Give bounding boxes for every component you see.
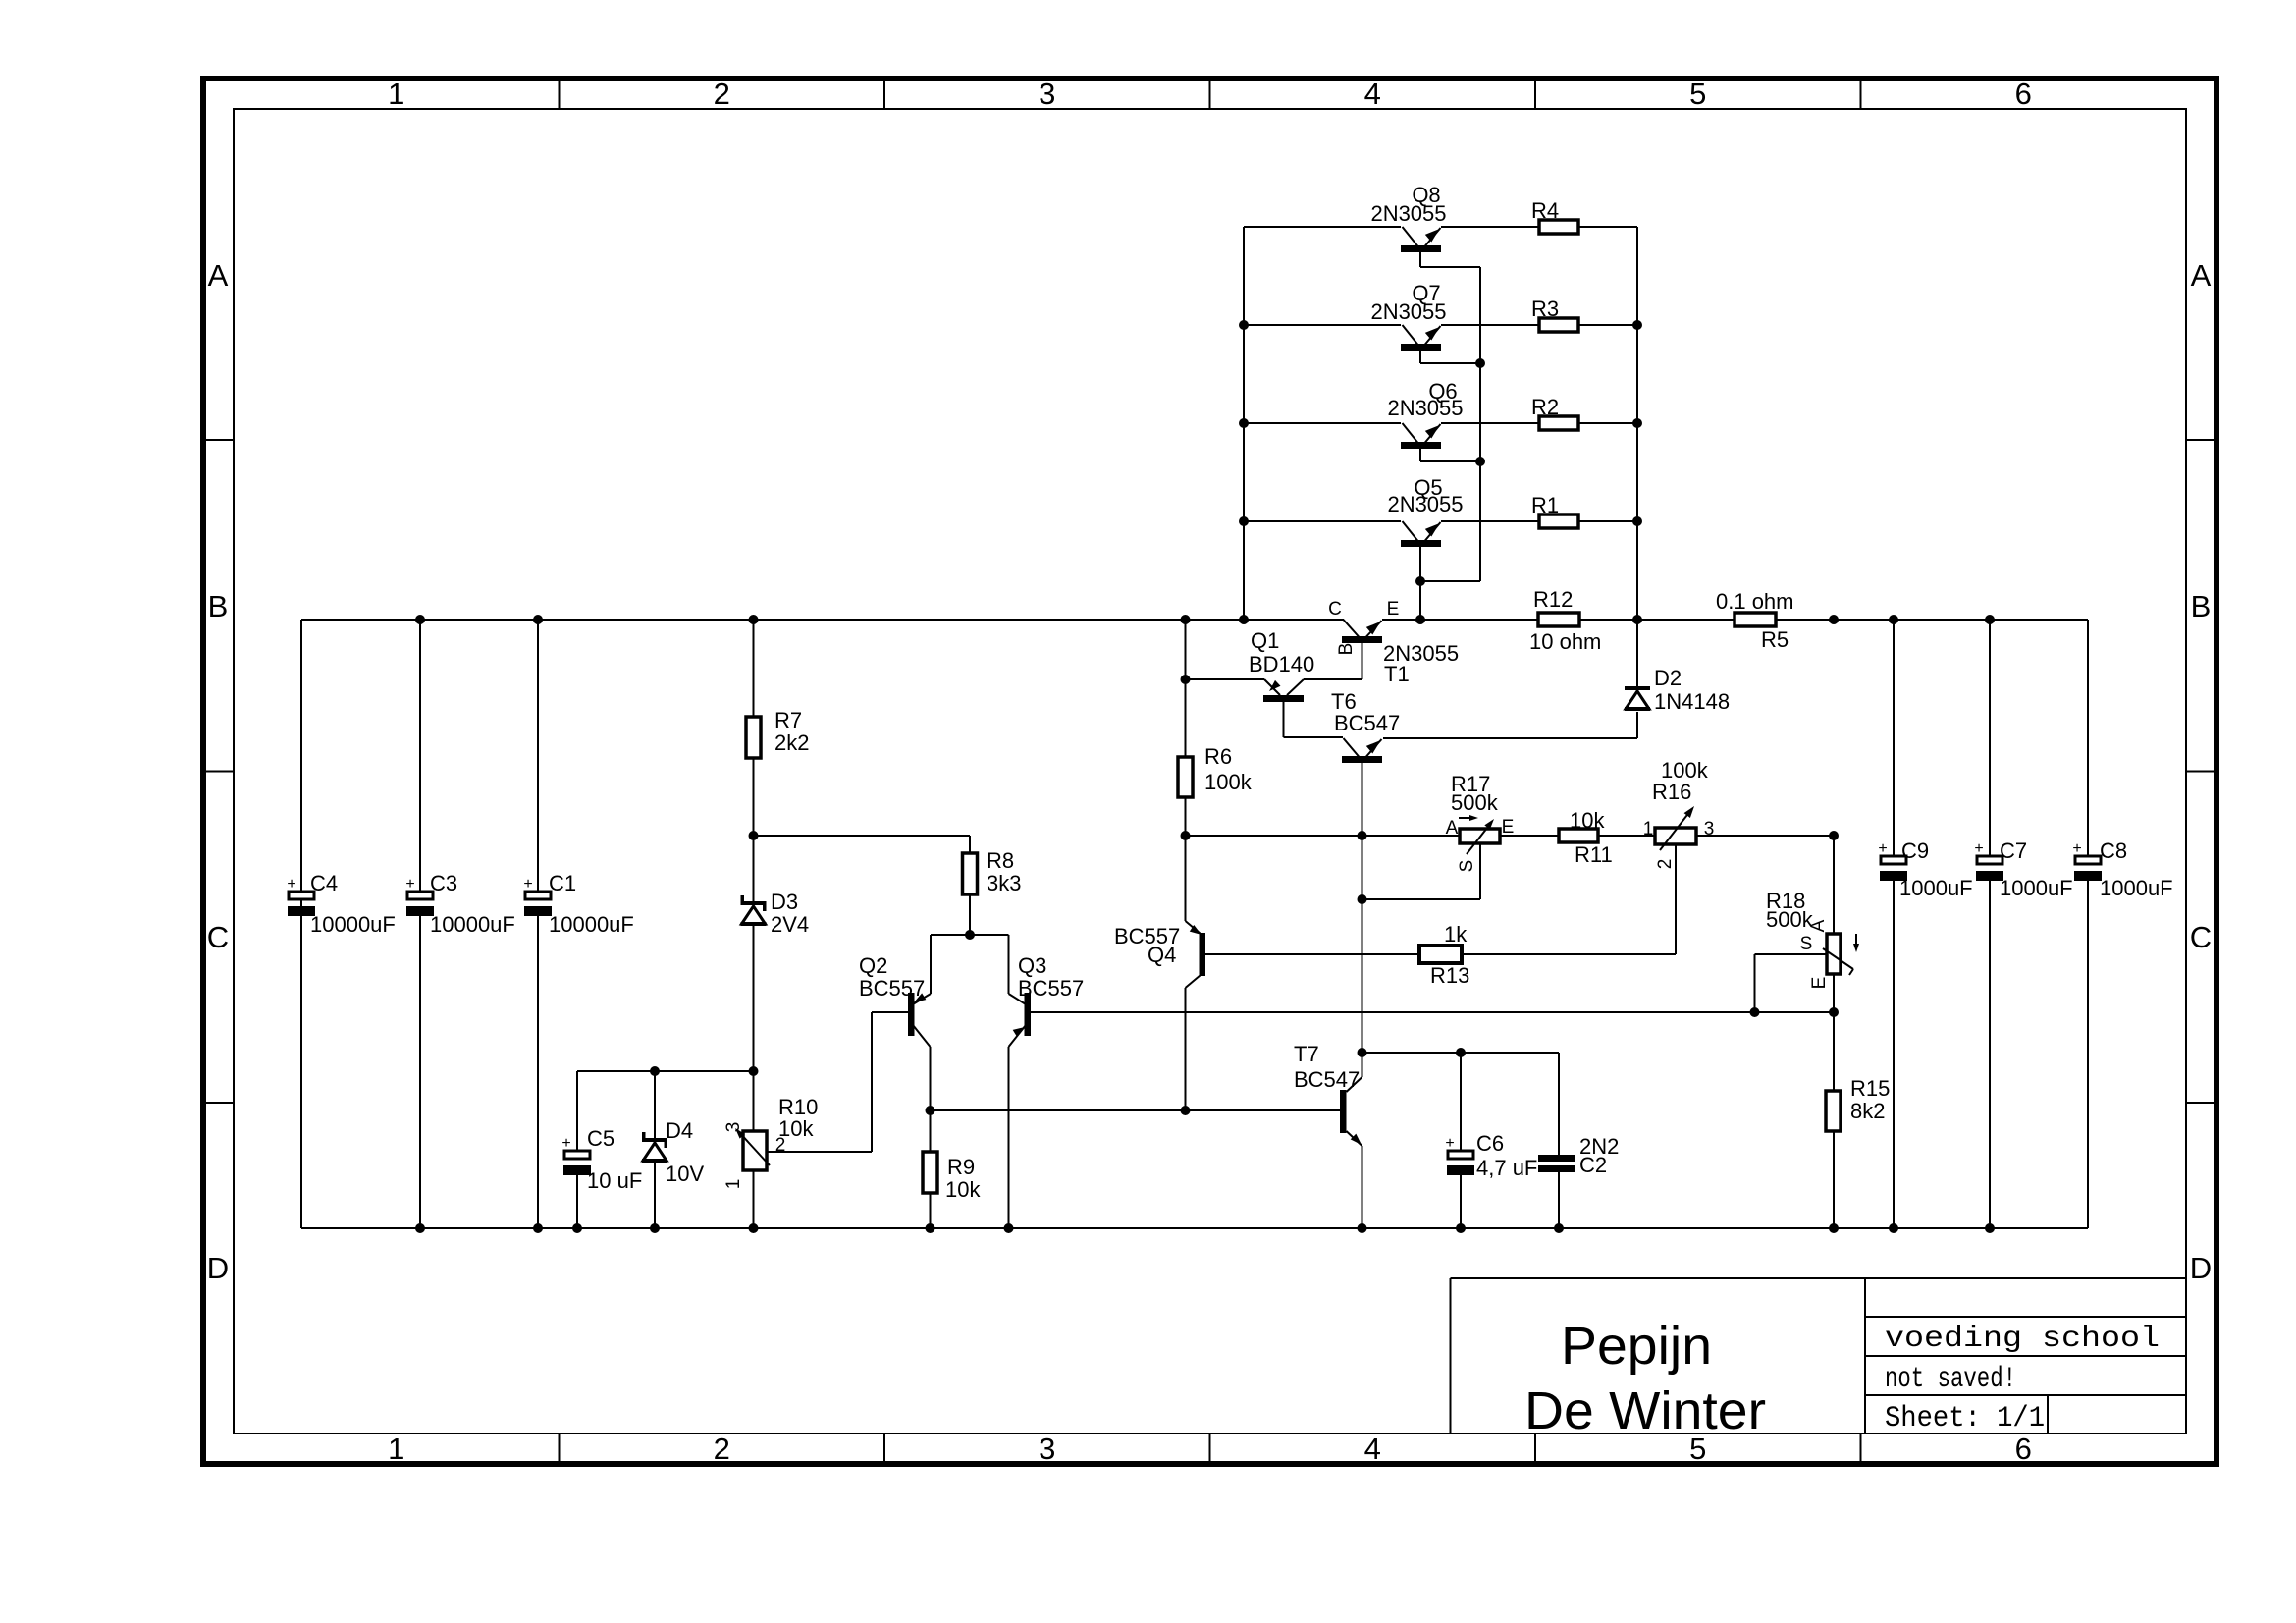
svg-text:10000uF: 10000uF <box>549 912 634 937</box>
label R16 <box>1652 758 1709 804</box>
svg-text:R11: R11 <box>1575 842 1613 867</box>
svg-text:voeding school: voeding school <box>1885 1323 2160 1356</box>
wire C3 branch <box>419 620 421 1228</box>
svg-text:3: 3 <box>1704 819 1715 839</box>
svg-text:2N3055: 2N3055 <box>1370 201 1446 226</box>
wire Q1 base to T6 collector <box>1284 702 1344 737</box>
label R17 pins <box>1446 817 1515 872</box>
svg-text:C: C <box>1328 599 1342 620</box>
svg-text:Q4: Q4 <box>1148 943 1176 967</box>
svg-text:4: 4 <box>1364 77 1381 111</box>
svg-text:3: 3 <box>1039 1432 1055 1466</box>
potentiometer R17 500k <box>1460 819 1500 854</box>
transistor Q8 2N3055 <box>1401 227 1441 252</box>
resistor R9 10k <box>923 1152 937 1193</box>
svg-text:D: D <box>207 1251 229 1285</box>
transistor Q4 BC557 (PNP) <box>1186 921 1206 988</box>
junction dots base bus <box>1415 358 1485 586</box>
label C4 <box>310 871 396 937</box>
border row letters right <box>2190 258 2212 1285</box>
resistor R3 <box>1539 318 1578 332</box>
border inner frame <box>234 109 2186 1434</box>
potentiometer R10 10k <box>735 1128 770 1170</box>
svg-text:1000uF: 1000uF <box>2000 876 2073 900</box>
svg-text:E: E <box>1502 817 1515 838</box>
junction dots collector bus <box>1239 320 1249 526</box>
svg-text:C6: C6 <box>1476 1131 1504 1156</box>
svg-text:10 ohm: 10 ohm <box>1529 629 1601 654</box>
label C8 <box>2100 839 2173 900</box>
wire emitter row y=531 <box>1441 520 1637 522</box>
label R17 <box>1451 772 1499 815</box>
wire Q1 emitter link <box>1186 678 1265 680</box>
wire error amp node row <box>1186 835 1461 837</box>
label Q8 <box>1370 183 1446 226</box>
label D3 <box>771 890 809 937</box>
svg-text:10k: 10k <box>945 1177 981 1202</box>
wire emitter resistor bus (right) <box>1636 227 1638 620</box>
wire base bus Q5-Q8 <box>1420 250 1480 620</box>
svg-text:BC547: BC547 <box>1294 1067 1360 1092</box>
svg-text:E: E <box>1809 977 1830 990</box>
svg-text:Q1: Q1 <box>1251 628 1279 653</box>
wire R6-Q4 vertical branch <box>1185 620 1187 1110</box>
wire Q2 collector / R9 branch <box>930 935 933 1228</box>
svg-text:BD140: BD140 <box>1249 652 1314 676</box>
capacitor C1 10000uF <box>523 876 552 916</box>
svg-text:1: 1 <box>388 1432 404 1466</box>
label C9 <box>1899 839 1973 900</box>
svg-text:6: 6 <box>2015 1432 2032 1466</box>
svg-text:100k: 100k <box>1204 770 1253 794</box>
svg-text:D2: D2 <box>1654 666 1682 690</box>
svg-text:Q2: Q2 <box>859 953 887 978</box>
svg-text:1000uF: 1000uF <box>2100 876 2173 900</box>
capacitor C9 1000uF <box>1878 840 1907 881</box>
wire R16 to R18 top <box>1696 835 1834 837</box>
wire T7 collector to C6/C2 <box>1362 1053 1560 1228</box>
svg-text:10k: 10k <box>1570 808 1605 833</box>
svg-text:2: 2 <box>714 1432 730 1466</box>
label R7 <box>774 708 809 755</box>
svg-text:B: B <box>2191 589 2212 623</box>
label R10 <box>778 1095 818 1141</box>
label R12 <box>1529 587 1601 654</box>
svg-text:R13: R13 <box>1430 963 1469 988</box>
capacitor C7 1000uF <box>1974 840 2003 881</box>
transistor Q2 BC557 (PNP) <box>908 993 931 1047</box>
label Q1 <box>1249 628 1314 676</box>
svg-text:2N3055: 2N3055 <box>1370 299 1446 324</box>
resistor R8 3k3 <box>963 853 978 894</box>
svg-text:C4: C4 <box>310 871 338 895</box>
svg-text:2N3055: 2N3055 <box>1387 396 1463 420</box>
transistor Q6 2N3055 <box>1401 423 1441 449</box>
resistor R7 2k2 <box>746 717 761 758</box>
svg-text:+: + <box>2072 840 2081 857</box>
label R5 <box>1716 589 1794 652</box>
svg-text:3: 3 <box>1039 77 1055 111</box>
wire Q2/Q3 emitter rail <box>931 934 1009 936</box>
wire T7 emitter to rail <box>1362 1146 1363 1228</box>
svg-text:+: + <box>523 876 532 893</box>
label R18 <box>1766 889 1814 932</box>
wire collector row y=531 <box>1244 520 1401 522</box>
wire R18 branch vertical <box>1833 836 1835 1228</box>
svg-text:D3: D3 <box>771 890 798 914</box>
label R8 <box>987 848 1021 895</box>
wire C1 branch <box>537 620 539 1228</box>
transistor T1 2N3055 <box>1342 620 1382 643</box>
label Q3 <box>1018 953 1084 1001</box>
svg-text:R5: R5 <box>1761 627 1789 652</box>
resistor R6 100k <box>1178 757 1193 797</box>
svg-text:+: + <box>287 876 295 893</box>
label C5 <box>587 1126 642 1193</box>
svg-text:Sheet: 1/1: Sheet: 1/1 <box>1885 1402 2045 1435</box>
svg-text:500k: 500k <box>1451 790 1499 815</box>
wire C9 branch <box>1893 620 1895 1228</box>
svg-text:C7: C7 <box>2000 839 2027 863</box>
junction dots emitter bus <box>1632 320 1642 526</box>
wire R17 wiper S branch <box>1362 844 1481 899</box>
wire left loop vertical <box>300 620 302 1228</box>
label R6 <box>1204 744 1253 794</box>
wire collector row y=331 <box>1244 324 1401 326</box>
wire D4 branch <box>654 1071 656 1228</box>
transistor T7 BC547 (NPN) <box>1340 1077 1362 1146</box>
resistor R13 1k <box>1419 946 1462 963</box>
label R10 pins <box>723 1122 785 1190</box>
svg-text:C1: C1 <box>549 871 576 895</box>
label T6 <box>1331 689 1400 735</box>
svg-text:C8: C8 <box>2100 839 2127 863</box>
label C2 <box>1579 1134 1619 1177</box>
wire T6 emitter to D2 <box>1383 620 1637 738</box>
svg-text:R2: R2 <box>1531 395 1559 419</box>
wire bottom negative rail <box>301 1227 2088 1229</box>
wire emitter row y=331 <box>1441 324 1637 326</box>
svg-text:1: 1 <box>388 77 404 111</box>
svg-text:4,7 uF: 4,7 uF <box>1476 1156 1537 1180</box>
label Q6 <box>1387 379 1463 420</box>
label C1 <box>549 871 634 937</box>
svg-text:R9: R9 <box>947 1155 975 1179</box>
svg-text:C: C <box>2190 920 2212 954</box>
svg-text:not saved!: not saved! <box>1885 1363 2016 1396</box>
junction dots misc nodes <box>650 675 1839 1115</box>
wire Q3 collector branch <box>1008 935 1010 1228</box>
resistor R4 <box>1539 220 1578 234</box>
svg-text:C: C <box>207 920 229 954</box>
wire Q3 base to R18 (long) <box>1031 1011 1834 1013</box>
wire collector bus Q5-Q8 (left) <box>1243 227 1245 620</box>
label D2 <box>1654 666 1730 714</box>
svg-text:1N4148: 1N4148 <box>1654 689 1730 714</box>
svg-text:R7: R7 <box>774 708 802 732</box>
svg-text:5: 5 <box>1689 77 1706 111</box>
wire R18 wiper S branch <box>1755 954 1828 1012</box>
capacitor C3 10000uF <box>405 876 434 916</box>
wire Q4 base / R13 row <box>1205 844 1676 954</box>
svg-text:R12: R12 <box>1533 587 1573 612</box>
wire C5 top branch <box>577 1071 754 1228</box>
svg-text:+: + <box>405 876 414 893</box>
wire C7 branch <box>1989 620 1991 1228</box>
resistor R5 0.1 ohm <box>1735 613 1776 626</box>
label R16 pins <box>1643 819 1715 869</box>
transistor Q1 BD140 (PNP) <box>1263 679 1304 702</box>
svg-text:R8: R8 <box>987 848 1014 873</box>
label R9 <box>945 1155 981 1202</box>
transistor Q3 BC557 (PNP) <box>1009 993 1032 1047</box>
svg-text:S: S <box>1800 934 1813 954</box>
svg-text:10V: 10V <box>666 1162 704 1186</box>
svg-text:2V4: 2V4 <box>771 912 809 937</box>
label C7 <box>2000 839 2073 900</box>
capacitor C6 4,7 uF <box>1445 1135 1474 1175</box>
svg-text:BC557: BC557 <box>1018 976 1084 1001</box>
label D4 <box>666 1118 704 1186</box>
wire collector row y=231 <box>1244 226 1401 228</box>
resistor R1 <box>1539 514 1578 528</box>
wire Q2 collector to T7 base <box>931 1109 1341 1111</box>
svg-text:1000uF: 1000uF <box>1899 876 1973 900</box>
diode D4 zener 10V <box>642 1132 667 1163</box>
wire R17 to R11 <box>1500 835 1559 837</box>
wire R7-D3-R10 vertical branch <box>753 620 755 1228</box>
svg-text:1: 1 <box>1643 819 1654 839</box>
svg-text:2: 2 <box>714 77 730 111</box>
wire unregulated positive rail (top) <box>301 619 2088 621</box>
svg-text:0.1 ohm: 0.1 ohm <box>1716 589 1794 614</box>
svg-text:BC557: BC557 <box>859 976 925 1001</box>
svg-text:Pepijn: Pepijn <box>1561 1317 1712 1376</box>
label Q7 <box>1370 281 1446 324</box>
wire Q1 collector to T1 base <box>1304 643 1362 679</box>
svg-text:B: B <box>1336 643 1357 656</box>
svg-text:R15: R15 <box>1850 1076 1890 1101</box>
label C6 <box>1476 1131 1537 1180</box>
label R11 <box>1570 808 1613 867</box>
svg-text:Q3: Q3 <box>1018 953 1046 978</box>
title block frame <box>1451 1278 2187 1434</box>
diode D3 zener 2V4 <box>741 895 767 926</box>
svg-text:D: D <box>2190 1251 2212 1285</box>
svg-text:10000uF: 10000uF <box>430 912 515 937</box>
label R18 pins <box>1800 919 1830 989</box>
border column ticks <box>203 79 2216 1464</box>
svg-text:A: A <box>1808 919 1829 932</box>
wire R10 wiper to Q2 base <box>767 1012 908 1152</box>
svg-text:S: S <box>1457 860 1477 873</box>
svg-text:10 uF: 10 uF <box>587 1168 642 1193</box>
label Q5 <box>1387 475 1463 516</box>
wire C8 branch <box>2087 620 2089 1228</box>
svg-text:2k2: 2k2 <box>774 730 809 755</box>
svg-text:3k3: 3k3 <box>987 871 1021 895</box>
wire emitter row y=431 <box>1441 422 1637 424</box>
svg-text:T1: T1 <box>1384 662 1410 686</box>
label Q4 <box>1114 924 1180 967</box>
label C3 <box>430 871 515 937</box>
svg-text:2: 2 <box>775 1135 786 1156</box>
svg-text:10000uF: 10000uF <box>310 912 396 937</box>
potentiometer R18 500k <box>1823 934 1853 975</box>
label R15 <box>1850 1076 1890 1123</box>
svg-text:R3: R3 <box>1531 297 1559 321</box>
label T7 <box>1294 1042 1360 1092</box>
svg-text:C5: C5 <box>587 1126 614 1151</box>
svg-text:R4: R4 <box>1531 198 1559 223</box>
label T1 <box>1383 641 1459 686</box>
junction dots positive rail <box>415 615 1995 624</box>
svg-text:C9: C9 <box>1901 839 1929 863</box>
svg-text:A: A <box>1446 818 1459 839</box>
capacitor C8 1000uF <box>2072 840 2102 881</box>
svg-text:T7: T7 <box>1294 1042 1319 1066</box>
wire collector row y=431 <box>1244 422 1401 424</box>
svg-text:+: + <box>561 1135 570 1152</box>
svg-text:+: + <box>1974 840 1983 857</box>
svg-text:C3: C3 <box>430 871 457 895</box>
transistor T6 BC547 <box>1342 738 1382 763</box>
border column numbers bottom <box>388 1432 2032 1466</box>
svg-text:6: 6 <box>2015 77 2032 111</box>
svg-text:A: A <box>208 258 229 293</box>
svg-text:BC547: BC547 <box>1334 711 1400 735</box>
wire R11 to R16 <box>1598 835 1655 837</box>
svg-text:A: A <box>2191 258 2212 293</box>
junction dots negative rail <box>415 1223 1995 1233</box>
label T1 pins C E B <box>1328 599 1399 655</box>
resistor R2 <box>1539 416 1578 430</box>
resistor R11 10k <box>1559 829 1598 842</box>
svg-text:De Winter: De Winter <box>1524 1381 1766 1440</box>
capacitor C5 10 uF <box>561 1135 591 1175</box>
label Q2 <box>859 953 925 1001</box>
potentiometer R16 100k <box>1655 806 1696 850</box>
svg-text:2N3055: 2N3055 <box>1387 492 1463 516</box>
svg-text:C2: C2 <box>1579 1153 1607 1177</box>
wire node R7/D3 to R8 <box>754 836 971 935</box>
resistor R12 10 ohm <box>1538 613 1579 626</box>
wire emitter row y=231 <box>1441 226 1637 228</box>
border row letters left <box>207 258 229 1285</box>
arrow marker R17 <box>1459 815 1478 821</box>
diode D2 1N4148 <box>1625 686 1650 711</box>
svg-text:1: 1 <box>723 1179 744 1190</box>
capacitor C4 10000uF <box>287 876 315 916</box>
svg-text:R1: R1 <box>1531 493 1559 517</box>
svg-text:D4: D4 <box>666 1118 693 1143</box>
transistor Q5 2N3055 <box>1401 521 1441 547</box>
svg-text:B: B <box>208 589 229 623</box>
svg-text:+: + <box>1878 840 1887 857</box>
svg-text:R16: R16 <box>1652 780 1691 804</box>
capacitor C2 2N2 <box>1538 1155 1575 1172</box>
svg-text:2: 2 <box>1655 859 1676 870</box>
title block author name <box>1524 1317 1766 1440</box>
label R13 <box>1430 922 1469 988</box>
border column numbers top <box>388 77 2032 111</box>
transistor Q7 2N3055 <box>1401 325 1441 351</box>
svg-text:1k: 1k <box>1444 922 1468 947</box>
svg-text:3: 3 <box>723 1122 744 1133</box>
svg-text:E: E <box>1387 599 1400 620</box>
svg-text:8k2: 8k2 <box>1850 1099 1885 1123</box>
resistor R15 8k2 <box>1826 1091 1841 1131</box>
svg-text:4: 4 <box>1364 1432 1381 1466</box>
svg-text:R6: R6 <box>1204 744 1232 769</box>
svg-text:+: + <box>1445 1135 1454 1152</box>
svg-text:500k: 500k <box>1766 907 1814 932</box>
border outer frame <box>203 79 2216 1464</box>
arrow marker R18 <box>1853 934 1859 952</box>
wire T6 base / T7 collector vertical <box>1362 763 1363 1077</box>
